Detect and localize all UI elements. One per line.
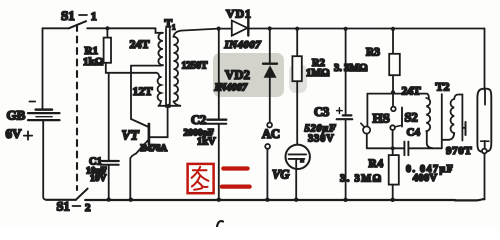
node VD2 top [268,26,272,30]
svg-text:AC: AC [262,127,280,141]
node emitter bottom [129,198,133,202]
svg-text:1kV: 1kV [197,137,216,148]
capacitor C2 [218,29,220,119]
node R2 top [295,27,299,31]
transformer T1 core [165,29,167,108]
wire to tube electrode [462,127,464,129]
svg-text:C3: C3 [314,105,329,119]
HS box left lower [366,134,368,149]
HS box left [366,94,368,127]
wire battery to bottom [43,121,46,200]
HS box bottom + capacitor C4 [367,147,404,149]
transistor VT base bar [148,124,151,144]
svg-text:400V: 400V [413,173,438,184]
node C1 bottom [107,197,111,201]
small mark bottom [217,221,223,226]
svg-text:IN4007: IN4007 [224,39,262,51]
svg-text:T2: T2 [436,80,450,94]
svg-text:R3: R3 [366,47,380,59]
wire top left [43,27,69,29]
wire 1250T bottom into bracket [174,102,181,106]
svg-text:VD2: VD2 [225,68,250,82]
wire left vertical [42,28,44,108]
svg-text:IN4007: IN4007 [214,83,248,94]
transformer T2 secondary 970T [454,95,462,141]
transformer T1 winding 12T [158,77,161,101]
wire emitter drop [130,153,136,199]
svg-text:2: 2 [85,202,91,214]
tube bottom terminal [482,149,487,154]
node R1 top [105,26,109,30]
svg-text:C2: C2 [191,113,206,127]
svg-text:3. 3MΩ: 3. 3MΩ [334,63,368,74]
switch S1-1 blade [69,21,86,28]
wire collector drop [150,106,168,137]
red char tu box [188,164,214,193]
wire S2 to R4 [392,130,394,148]
wire base drop [131,66,149,127]
svg-text:330V: 330V [308,134,335,145]
svg-text:12T: 12T [133,84,153,98]
wire step into 12T [157,73,160,77]
node box top [391,90,395,94]
svg-text:1250T: 1250T [182,61,208,72]
wire bottom left [47,199,76,201]
terminal AC bottom [265,144,270,149]
shading smudge near R2 [289,64,307,93]
svg-text:1MΩ: 1MΩ [306,68,330,79]
node C2 bottom [217,198,221,202]
svg-text:R4: R4 [369,158,384,170]
node R3 top [391,27,395,31]
transformer T1 winding 1250T [174,31,181,37]
transistor VT emitter [136,139,149,153]
wire top after S1-1 [87,27,155,29]
red char er [223,166,247,170]
HS terminal circle [363,126,370,133]
svg-text:6V: 6V [6,126,23,141]
node bracket [167,104,171,108]
transformer T2 core [441,94,443,148]
dashed link S1 [76,25,78,190]
diode VD1 [181,29,232,31]
resistor R2 [296,29,298,57]
wire tube bottom to corner [484,153,486,199]
resistor R3 [392,29,394,54]
svg-text:C4: C4 [407,127,421,139]
svg-text:10V: 10V [90,174,107,184]
tube internal top electrode [484,89,486,105]
shading behind VD2 labels [213,53,284,97]
svg-text:S1: S1 [57,200,70,214]
svg-text:HS: HS [373,111,390,126]
svg-text:VT: VT [122,128,140,143]
svg-text:S2: S2 [405,111,418,125]
svg-text:B476A: B476A [141,143,168,154]
svg-text:GB: GB [7,108,26,123]
tube internal bottom electrode [484,141,486,149]
wire AC to bottom [266,149,268,200]
switch S2 [391,107,396,112]
svg-text:1kΩ: 1kΩ [83,56,104,68]
node AC bottom [265,198,269,202]
svg-text:T₁: T₁ [165,18,176,30]
node R4 bottom [391,198,395,202]
resistor R1 [106,28,108,37]
diode VD2 [269,29,271,63]
capacitor C1 [108,73,110,160]
svg-text:VG: VG [272,168,289,182]
wire R1 bottom to base node [106,63,157,73]
battery GB [30,101,36,103]
transformer T2 winding 24T [426,98,430,131]
wire bottom main [85,199,455,201]
terminal AC top [267,123,272,128]
svg-text:24T: 24T [402,86,422,98]
svg-text:24T: 24T [130,37,150,51]
node C3 top [344,27,348,31]
svg-text:3. 3MΩ: 3. 3MΩ [340,174,383,185]
wire bracket [159,105,181,107]
wire 24T bottom to base drop [131,64,163,66]
resistor R4 [392,148,394,155]
svg-text:VD1: VD1 [226,7,252,21]
node C2 top [217,27,221,31]
wire R2 to VG [296,81,298,154]
neon lamp VG [286,145,310,169]
capacitor C3 [345,29,347,115]
node C3 bottom [343,198,347,202]
tube external electrode bar [465,122,467,135]
wire 12T bottom into bracket [159,101,161,106]
discharge tube [477,89,491,152]
transformer T1 winding 24T [156,28,163,33]
svg-text:1: 1 [91,9,97,23]
HS box top [367,94,429,98]
wire top right corner down [484,29,486,91]
figure caption red [188,164,250,193]
node R4 top [391,146,395,150]
svg-text:S1: S1 [61,8,75,23]
switch S1-2 blade [76,189,88,200]
node VG bottom [294,198,298,202]
svg-text:970T: 970T [446,145,472,157]
